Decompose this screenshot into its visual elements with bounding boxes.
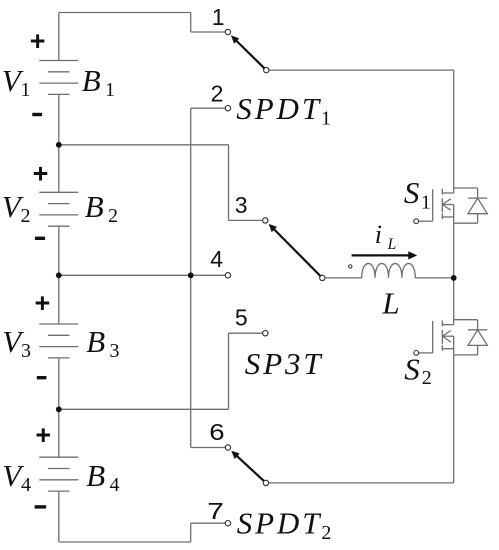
- svg-text:4: 4: [210, 246, 223, 272]
- wire: to terminal 1: [191, 31, 225, 33]
- SPDT1 pole circle: [264, 67, 269, 72]
- battery B2 plates: [39, 192, 78, 226]
- switch arm with arrow: SP3T: [269, 224, 321, 276]
- wire: node B3-B4 horizontal: [59, 408, 229, 410]
- wire: node B2-B3 to terminal 4: [59, 274, 225, 276]
- wire: right rail top segment: [453, 70, 455, 188]
- svg-text:6: 6: [209, 420, 224, 445]
- node inductor-rail junction dot: [451, 275, 457, 281]
- svg-text:B1: B1: [82, 63, 115, 101]
- wire: inductor to right rail: [415, 277, 453, 279]
- svg-text:1: 1: [212, 4, 225, 30]
- wire: output bus vertical: [190, 108, 192, 447]
- svg-text:L: L: [381, 285, 399, 320]
- terminal 5 circle: [263, 331, 268, 336]
- wire: corner down to terminal1 level: [190, 13, 192, 33]
- wire: left battery rail segments: [58, 13, 60, 61]
- switch arm with arrow: SPDT2: [231, 451, 264, 481]
- svg-text:+: +: [35, 420, 51, 450]
- battery B3 plates: [39, 324, 78, 358]
- current arrow i_L: [352, 251, 418, 259]
- svg-text:+: +: [35, 288, 51, 318]
- svg-text:B4: B4: [86, 458, 119, 496]
- terminal 4 circle: [225, 273, 230, 278]
- SP3T pole circle: [320, 275, 325, 280]
- node B2-B3 junction dot: [56, 272, 62, 278]
- svg-text:SPDT2: SPDT2: [237, 506, 332, 545]
- node B3-B4 junction dot: [56, 406, 62, 412]
- terminal 2 circle: [225, 106, 230, 111]
- wire: node B1-B2 to mid corner: [59, 144, 229, 146]
- svg-text:V4: V4: [2, 458, 31, 496]
- transistor S1: MOSFET with body diode: [414, 188, 487, 224]
- wire: SP3T pole to inductor: [325, 277, 362, 279]
- svg-text:B3: B3: [86, 324, 119, 362]
- svg-text:+: +: [33, 159, 49, 189]
- svg-text:iL: iL: [375, 220, 396, 253]
- wire: bus to terminal 6: [191, 447, 226, 449]
- wire: to terminal 3: [229, 219, 263, 221]
- terminal 6 circle: [225, 445, 230, 450]
- wire: bottom B4- wire: [59, 541, 191, 543]
- SPDT2 pole circle: [263, 480, 268, 485]
- polarity - B1: [32, 113, 42, 116]
- switch arm with arrow: SPDT1: [231, 35, 264, 68]
- wire: mid vertical to terminal3 level: [228, 145, 230, 221]
- polarity - B3: [37, 376, 47, 379]
- wire: right rail bottom segment: [453, 355, 455, 483]
- svg-text:V3: V3: [2, 324, 31, 362]
- wire: terminal 7 to corner: [191, 522, 226, 524]
- terminal 1 circle: [225, 29, 230, 34]
- svg-text:SPDT1: SPDT1: [236, 91, 331, 130]
- svg-text:S1: S1: [404, 175, 431, 213]
- svg-text:+: +: [30, 26, 46, 56]
- svg-text:SP3T: SP3T: [245, 346, 324, 381]
- terminal 7 circle: [225, 521, 230, 526]
- wire: terminal 2 to bus: [191, 107, 226, 109]
- svg-text:5: 5: [235, 305, 248, 331]
- polarity - B2: [35, 237, 45, 240]
- wire: top B1+ to corner: [59, 12, 191, 14]
- svg-text:3: 3: [235, 192, 248, 218]
- svg-text:S2: S2: [404, 352, 432, 389]
- node 4 bus junction dot: [188, 272, 194, 278]
- wire: mid vertical terminal5 down: [228, 333, 230, 409]
- battery B4 plates: [39, 457, 78, 491]
- svg-text:V2: V2: [2, 189, 31, 227]
- transistor S2: MOSFET with body diode: [414, 320, 487, 356]
- wire: terminal 5 to mid: [229, 332, 263, 334]
- wire: SPDT1 pole to right rail: [269, 69, 454, 71]
- node B1-B2 junction dot: [56, 142, 62, 148]
- battery B1 plates: [39, 61, 78, 95]
- svg-text:7: 7: [207, 498, 224, 524]
- inductor winding-start dot: [349, 265, 352, 268]
- wire: right rail middle segment: [453, 223, 455, 320]
- wire: corner down to bottom: [190, 523, 192, 542]
- svg-text:B2: B2: [85, 189, 118, 227]
- inductor L coil: [362, 263, 416, 277]
- wire: SPDT2 pole to right rail: [269, 482, 454, 484]
- svg-text:V1: V1: [2, 63, 31, 101]
- svg-text:2: 2: [211, 81, 224, 107]
- terminal 3 circle: [263, 218, 268, 223]
- polarity - B4: [35, 505, 47, 508]
